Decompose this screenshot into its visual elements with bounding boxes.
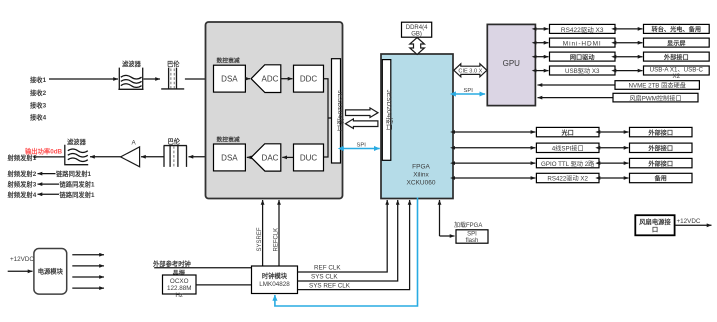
amplifier A (121, 140, 140, 167)
bus SPI (RF↔FPGA) (344, 148, 380, 150)
wire 巴伦→放大器 (141, 156, 164, 158)
svg-text:射频发射4: 射频发射4 (7, 190, 37, 199)
wire 射频发射1→滤波器 (35, 156, 65, 158)
balun 巴伦 (receive) (161, 59, 184, 89)
svg-text:电源模块: 电源模块 (38, 267, 64, 276)
wire 光口↔外部接口 (600, 131, 629, 133)
wire FPGA↔RS422 (455, 177, 536, 179)
svg-text:RS422驱动 X3: RS422驱动 X3 (561, 26, 604, 34)
filter 滤波器 (transmit) (64, 137, 88, 165)
block NVME 2TB 固态硬盘 (615, 81, 699, 90)
interface JESD204接口 (FPGA side) (382, 60, 394, 161)
svg-text:SYS REF CLK: SYS REF CLK (309, 282, 351, 289)
svg-text:巴伦: 巴伦 (168, 137, 181, 146)
svg-text:OCXO: OCXO (170, 278, 189, 285)
svg-text:Mini-HDMI: Mini-HDMI (563, 40, 602, 47)
block DAC (251, 144, 281, 171)
svg-text:链路同发射1: 链路同发射1 (59, 180, 95, 189)
wire FPGA↔GPIO (455, 162, 536, 164)
block 风扇PWM控制接口 (613, 93, 698, 102)
svg-text:DSA: DSA (221, 153, 238, 162)
wire REFCLK 时钟→射频 (278, 200, 280, 266)
block 光口 (536, 127, 599, 136)
wire GPU↔RS422驱动 (536, 28, 548, 30)
wire GPIO↔外部接口 (600, 162, 629, 164)
svg-text:外部接口: 外部接口 (664, 53, 689, 61)
block RS422驱动 X3 (550, 24, 616, 33)
block Mini-HDMI (550, 38, 616, 47)
svg-text:外部参考时钟: 外部参考时钟 (153, 259, 191, 268)
svg-text:射频发射3: 射频发射3 (7, 180, 37, 189)
svg-text:SPI: SPI (357, 142, 367, 148)
block 4线SPI接口 (536, 143, 599, 152)
svg-text:外部接口: 外部接口 (648, 129, 673, 137)
wire DAC→DSA (247, 156, 251, 158)
svg-text:GPU: GPU (503, 59, 521, 68)
block GPIO TTL 驱动 2路 (536, 158, 599, 167)
svg-text:链路同发射1: 链路同发射1 (59, 190, 95, 199)
bus SPI FPGA→时钟模块 (blue) (275, 198, 418, 307)
junction dot (33, 155, 36, 158)
block 外部接口 (630, 158, 693, 167)
wire DSA→巴伦 (189, 156, 214, 158)
wire 4线SPI↔外部接口 (600, 147, 629, 149)
svg-text:NVME 2TB 固态硬盘: NVME 2TB 固态硬盘 (628, 82, 685, 90)
oscillator OCXO 122.88MHz (163, 275, 197, 299)
block 外部接口 (644, 52, 710, 61)
svg-text:巴伦: 巴伦 (167, 59, 180, 68)
block 外部接口 (630, 127, 693, 136)
wire SYSREF 时钟→射频 (262, 200, 264, 266)
wire FPGA→SPI flash (439, 200, 441, 236)
wire +12VDC→电源模块 (8, 270, 33, 272)
svg-text:滤波器: 滤波器 (122, 59, 142, 68)
svg-text:数控衰减: 数控衰减 (217, 57, 240, 65)
svg-text:flash: flash (466, 238, 479, 244)
block RS422驱动 X2 (536, 173, 599, 182)
wire FPGA↔光口 (455, 131, 536, 133)
module FPGA (381, 54, 453, 199)
svg-text:DDR4(4: DDR4(4 (406, 25, 428, 31)
svg-text:+12VDC: +12VDC (677, 218, 701, 225)
svg-text:RS422驱动 X2: RS422驱动 X2 (547, 176, 588, 183)
bus arrow PCIE3.0 FPGA↔GPU (454, 64, 487, 77)
svg-text:X2: X2 (673, 73, 681, 80)
svg-text:接收4: 接收4 (30, 113, 47, 122)
svg-text:网口驱动: 网口驱动 (570, 53, 595, 61)
svg-text:接收3: 接收3 (30, 101, 47, 110)
bus arrow DDR4↔FPGA (410, 38, 425, 55)
svg-text:风扇电源接: 风扇电源接 (639, 217, 671, 226)
block ADC (251, 65, 281, 93)
svg-text:REFCLK: REFCLK (273, 228, 279, 252)
block 外部接口 (630, 143, 693, 152)
wire 射频发射2 (38, 173, 56, 175)
module GPU (487, 24, 535, 105)
interface JESD204接口 (RF side) (332, 59, 346, 163)
block USB-A X1、USB-C X2 (644, 66, 710, 80)
svg-text:接收1: 接收1 (30, 75, 47, 84)
wire 电源输出2 (72, 265, 104, 267)
wire 射频发射4 (38, 193, 60, 195)
svg-text:XCKU060: XCKU060 (407, 180, 436, 187)
memory SPI flash (456, 230, 488, 244)
svg-text:122.88M: 122.88M (167, 285, 192, 292)
wire 风扇PWM→GPU (538, 97, 613, 99)
wire 接收1→滤波器 (49, 78, 118, 80)
svg-text:FPGA: FPGA (412, 164, 430, 171)
svg-text:光口: 光口 (561, 129, 574, 137)
svg-text:加载FPGA: 加载FPGA (454, 221, 482, 229)
module 时钟模块 LMK04828 (252, 266, 298, 294)
svg-text:REF CLK: REF CLK (314, 265, 341, 272)
svg-text:SPI: SPI (464, 88, 474, 94)
wire ADC→DDC (281, 78, 293, 80)
block DSA (receive) (214, 65, 246, 92)
block 风扇电源接口 (635, 215, 674, 235)
svg-text:显示屏: 显示屏 (667, 39, 686, 47)
wire 风扇电源→+12VDC (675, 224, 712, 226)
svg-text:风扇PWM控制接口: 风扇PWM控制接口 (629, 94, 681, 102)
wire 电源输出3 (72, 276, 104, 278)
svg-text:ADC: ADC (262, 75, 279, 84)
block DSA (transmit) (214, 144, 246, 171)
wire OCXO→时钟模块 (196, 284, 251, 286)
wire DDC→JESD204 (324, 79, 332, 157)
svg-text:SPI: SPI (467, 232, 477, 238)
svg-text:滤波器: 滤波器 (67, 137, 87, 146)
svg-text:GB): GB) (411, 31, 422, 37)
wire 放大器→滤波器 (90, 156, 121, 158)
svg-text:时钟模块: 时钟模块 (262, 271, 288, 280)
svg-text:4线SPI接口: 4线SPI接口 (552, 145, 584, 153)
block 显示屏 (644, 38, 710, 47)
wire REF CLK (298, 200, 388, 272)
block DDC (294, 65, 324, 92)
wire 电源输出1 (72, 254, 104, 256)
svg-text:DSA: DSA (221, 75, 238, 84)
svg-text:输出功率0dB: 输出功率0dB (25, 147, 63, 156)
svg-text:Hz: Hz (175, 292, 183, 299)
svg-text:USB驱动 X3: USB驱动 X3 (565, 68, 600, 75)
memory DDR4(4GB) (402, 22, 432, 37)
svg-text:JESD204接口: JESD204接口 (385, 89, 394, 130)
svg-text:DAC: DAC (262, 153, 279, 162)
bus arrow JESD (to RF) (345, 119, 378, 129)
module 电源模块 (34, 249, 67, 295)
wire DSA→ADC (245, 78, 250, 80)
svg-text:SYS CLK: SYS CLK (311, 274, 338, 281)
bus SPI (FPGA↔GPU) (456, 93, 486, 95)
svg-text:接收2: 接收2 (30, 88, 47, 97)
svg-text:GPIO TTL 驱动 2路: GPIO TTL 驱动 2路 (541, 160, 595, 168)
svg-text:射频发射2: 射频发射2 (7, 169, 37, 178)
module 射频收发模块 (gray) (206, 22, 343, 199)
svg-text:外部接口: 外部接口 (648, 160, 673, 168)
wire SYS REF CLK (298, 200, 410, 290)
wire 电源输出4 (72, 287, 104, 289)
filter 滤波器 (receive) (118, 59, 143, 89)
wire SYS CLK (298, 200, 398, 281)
block 转台、光电、备用 (644, 24, 710, 33)
block DUC (294, 144, 324, 171)
svg-text:链路同发射1: 链路同发射1 (55, 169, 91, 178)
wire DUC→DAC (282, 156, 293, 158)
wire 巴伦→DSA (185, 78, 212, 80)
wire 射频发射3 (38, 183, 60, 185)
svg-text:LMK04828: LMK04828 (259, 281, 290, 288)
wire RS422驱动↔转台 (616, 28, 643, 30)
svg-text:SYSREF: SYSREF (257, 227, 263, 251)
block 备用 (630, 173, 693, 182)
svg-text:DUC: DUC (300, 153, 318, 162)
svg-text:DDC: DDC (300, 75, 318, 84)
wire RS422↔备用 (600, 177, 629, 179)
svg-text:数控衰减: 数控衰减 (217, 136, 240, 144)
svg-text:备用: 备用 (654, 175, 667, 183)
block USB驱动 X3 (550, 66, 616, 75)
wire 滤波器→巴伦 (144, 78, 161, 80)
bus arrow JESD (to FPGA) (346, 108, 379, 118)
wire FPGA↔4线SPI (455, 147, 536, 149)
svg-text:转台、光电、备用: 转台、光电、备用 (652, 26, 702, 34)
wire GPU↔Mini-HDMI (536, 42, 548, 44)
svg-text:口: 口 (652, 226, 658, 234)
wire GPU↔网口驱动 (536, 56, 548, 58)
svg-text:A: A (132, 140, 137, 147)
wire 网口驱动↔外部接口 (616, 56, 643, 58)
svg-text:外部接口: 外部接口 (648, 145, 673, 153)
block 网口驱动 (550, 52, 616, 61)
wire USB驱动↔USB-A (616, 70, 643, 72)
svg-text:Xilinx: Xilinx (413, 172, 429, 179)
balun 巴伦 (transmit) (164, 137, 187, 167)
svg-text:+12VDC: +12VDC (10, 256, 34, 263)
svg-text:CIE 3.0 X: CIE 3.0 X (458, 68, 482, 74)
wire NVME→GPU (538, 84, 615, 86)
wire Mini-HDMI↔显示屏 (616, 42, 643, 44)
wire GPU↔USB驱动 (536, 70, 548, 72)
wire 外部参考时钟→时钟模块 (154, 267, 251, 269)
svg-text:JESD204接口: JESD204接口 (336, 90, 345, 131)
